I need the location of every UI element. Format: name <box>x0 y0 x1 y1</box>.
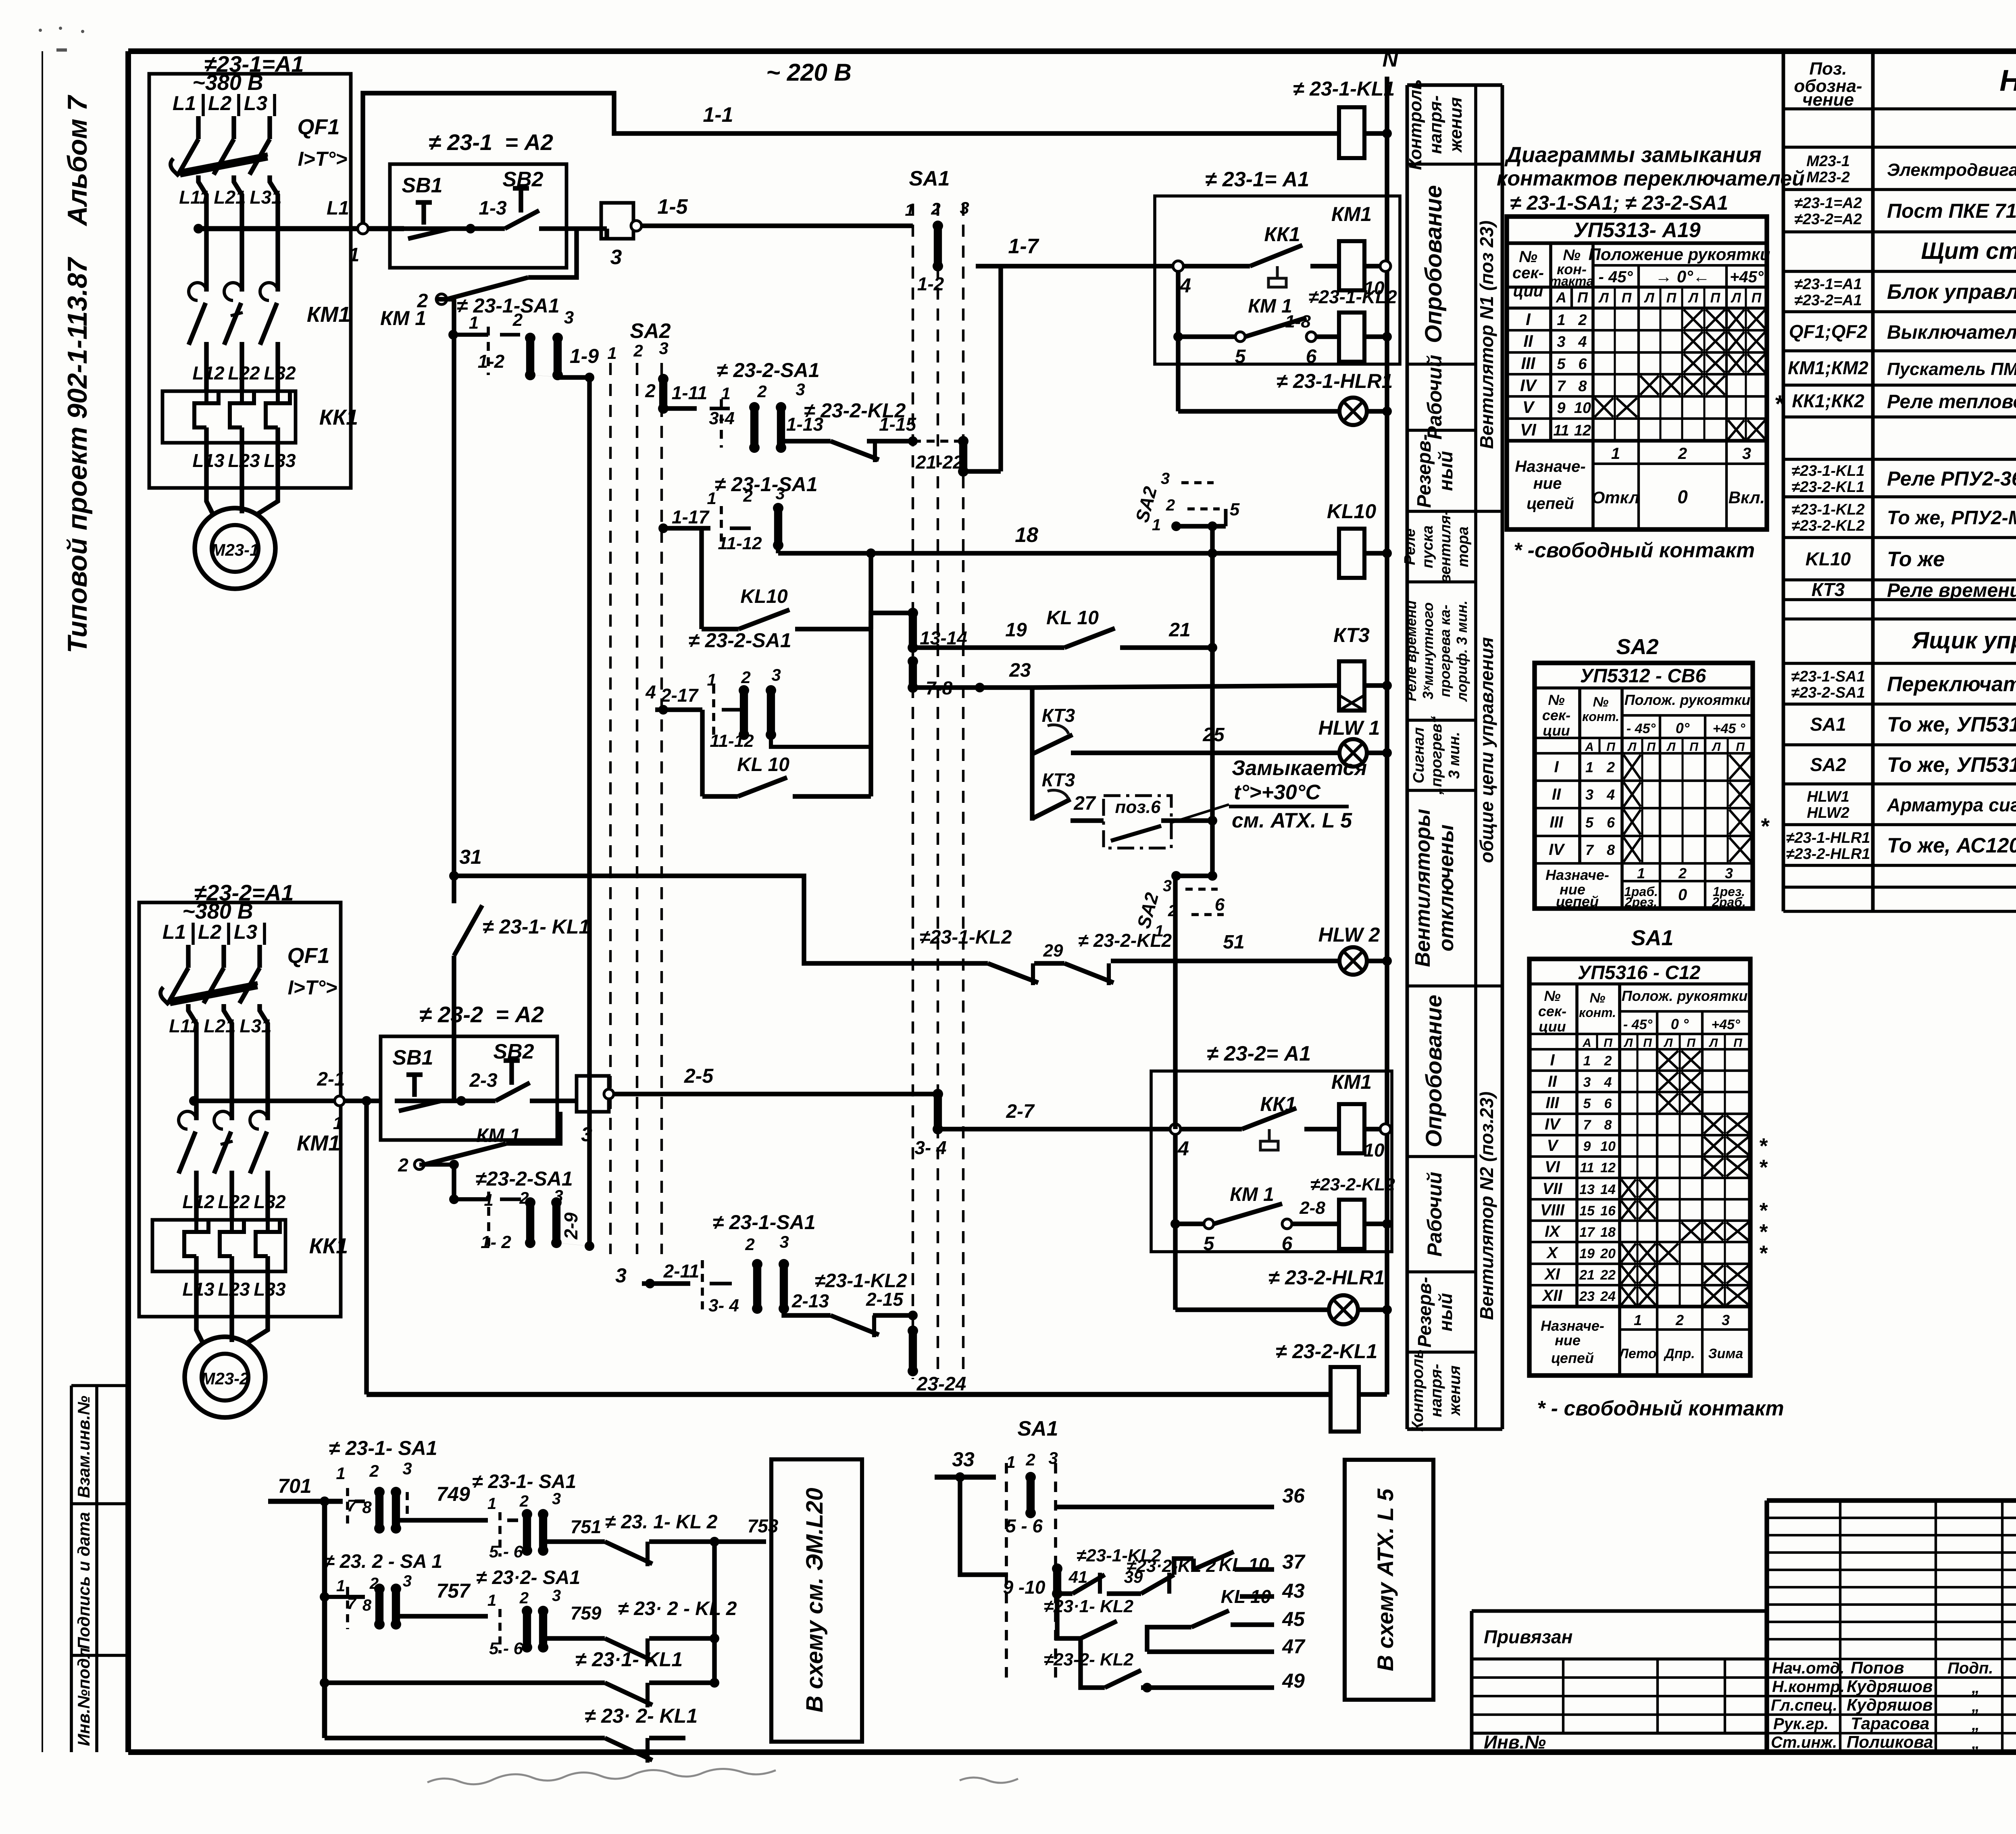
strip cell Контроль <box>1407 1349 1476 1432</box>
svg-text:Л: Л <box>1624 1036 1633 1050</box>
wire 18 <box>778 523 1339 558</box>
svg-text:21: 21 <box>1168 619 1190 641</box>
svg-text:→ 0°←: → 0°← <box>1655 267 1710 286</box>
svg-text:L2: L2 <box>208 92 232 115</box>
svg-text:Наименование: Наименование <box>1999 64 2016 97</box>
svg-text:2рез.: 2рез. <box>1624 895 1657 909</box>
svg-text:23: 23 <box>1579 1289 1595 1304</box>
svg-text:Опробование: Опробование <box>1421 995 1446 1147</box>
svg-text:2-11: 2-11 <box>663 1261 700 1282</box>
svg-text:В схему см. ЭМ.L20: В схему см. ЭМ.L20 <box>802 1488 828 1712</box>
svg-text:≠ 23. 2 - SA 1: ≠ 23. 2 - SA 1 <box>324 1551 442 1572</box>
contact 23-1-KL2 NC (29) <box>919 927 1064 985</box>
svg-text:Арматура сигнальная АС1201БУ2: Арматура сигнальная АС1201БУ2, ~220В <box>1887 794 2016 815</box>
svg-text:1: 1 <box>1634 1312 1642 1328</box>
svg-text:Полшкова: Полшкова <box>1847 1732 1933 1751</box>
contact KK1 NC block1 <box>1173 223 1339 297</box>
time relay coil KT3 <box>1333 624 1392 711</box>
svg-text:= А2: = А2 <box>505 129 553 155</box>
parts row: ЯУП <box>1911 627 2016 654</box>
wire vertical 21-27 junction <box>1210 526 1214 876</box>
svg-text:„: „ <box>1971 1679 1980 1696</box>
svg-text:3: 3 <box>402 1459 412 1478</box>
sidebar project title <box>62 94 93 653</box>
switch section 23-1-SA1 (3-4) lower <box>642 1211 816 1315</box>
svg-text:L3: L3 <box>244 92 268 115</box>
svg-text:2-7: 2-7 <box>1006 1101 1035 1122</box>
svg-text:1-13: 1-13 <box>786 414 823 435</box>
switch section 23-2-SA1 (1-2) <box>449 1165 573 1252</box>
svg-text:ции: ции <box>1539 1018 1566 1035</box>
svg-text:Замыкается: Замыкается <box>1232 757 1367 780</box>
switch section 23-1-SA1 (1-2) <box>448 294 574 380</box>
svg-text:Полож. рукоятки: Полож. рукоятки <box>1624 692 1751 708</box>
svg-text:3: 3 <box>1585 786 1593 803</box>
svg-text:П: П <box>1622 290 1632 306</box>
svg-text:7: 7 <box>1583 1117 1592 1133</box>
svg-text:М23-1: М23-1 <box>211 540 259 559</box>
labels L11 L21 L31 23-2 <box>169 1015 272 1036</box>
strip cell Рабочий <box>1407 1157 1476 1257</box>
switch section 23-1-SA1 (5-6) aux <box>472 1471 576 1561</box>
strip cell Сигнал <box>1407 716 1476 795</box>
svg-text:1-2: 1-2 <box>478 351 505 372</box>
wire 51 and lamp HLW2 <box>1137 923 1392 975</box>
svg-text:+45°: +45° <box>1711 1017 1740 1032</box>
svg-text:9: 9 <box>1583 1139 1591 1154</box>
wire 2-1 <box>189 1069 381 1133</box>
svg-text:ІІ: ІІ <box>1552 786 1561 803</box>
labels L13 L23 L33 23-2 <box>182 1279 286 1300</box>
svg-text:≠ 23· 2 - KL 2: ≠ 23· 2 - KL 2 <box>618 1598 737 1619</box>
svg-text:*: * <box>1758 1155 1768 1180</box>
svg-text:цепей: цепей <box>1527 495 1574 513</box>
svg-text:L23: L23 <box>228 450 260 471</box>
svg-text:≠23-1-KL1: ≠23-1-KL1 <box>1791 463 1864 479</box>
svg-text:0 °: 0 ° <box>1671 1016 1689 1032</box>
svg-text:6: 6 <box>1282 1233 1293 1255</box>
corner marks <box>39 27 84 52</box>
svg-text:6: 6 <box>1604 1096 1612 1111</box>
svg-text:П: П <box>1604 1036 1613 1050</box>
svg-text:ный: ный <box>1435 451 1457 491</box>
svg-text:П: П <box>1710 290 1721 306</box>
svg-text:4: 4 <box>1179 274 1191 297</box>
labels L12 L22 L32 23-1 <box>192 363 296 383</box>
svg-text:3- 4: 3- 4 <box>708 1296 739 1315</box>
svg-text:≠23-1-KL2: ≠23-1-KL2 <box>1791 501 1864 518</box>
svg-text:2: 2 <box>1606 759 1615 775</box>
svg-text:2-13: 2-13 <box>791 1290 829 1311</box>
svg-text:* -свободный контакт: * -свободный контакт <box>1514 539 1755 562</box>
svg-text:3: 3 <box>659 339 668 358</box>
svg-text:1: 1 <box>607 344 616 363</box>
svg-text:≠ 23-1-SA1: ≠ 23-1-SA1 <box>712 1211 815 1234</box>
switch SA1 aux (5-6) <box>1006 1417 1058 1686</box>
relay coil KL10 <box>1327 500 1392 578</box>
start button SB2 23-2 <box>461 1040 557 1101</box>
svg-text:1: 1 <box>484 1190 493 1209</box>
contact KM1 aux 1-8 <box>1178 271 1339 367</box>
svg-text:конт.: конт. <box>1582 709 1619 724</box>
svg-text:Попов: Попов <box>1851 1658 1904 1677</box>
pushbutton box 23-2=A2 <box>381 1002 557 1140</box>
svg-text:0: 0 <box>1678 886 1687 904</box>
svg-text:33: 33 <box>952 1448 975 1471</box>
switch section 23-1-SA1 (11-12) <box>658 473 818 553</box>
svg-text:1: 1 <box>707 489 716 508</box>
svg-text:3: 3 <box>1742 445 1751 463</box>
svg-text:~380 В: ~380 В <box>192 71 263 95</box>
switch SA2 stub (6) <box>1133 871 1225 940</box>
svg-text:Гл.спец.: Гл.спец. <box>1771 1696 1837 1714</box>
svg-text:Полож. рукоятки: Полож. рукоятки <box>1622 988 1748 1004</box>
relay coil 23-1-KL2 <box>1308 286 1397 362</box>
svg-text:4: 4 <box>1578 333 1587 350</box>
svg-text:„: „ <box>1971 1697 1980 1715</box>
svg-text:лориф. 3 мин.: лориф. 3 мин. <box>1454 600 1470 702</box>
svg-text:16: 16 <box>1600 1203 1616 1219</box>
svg-text:5: 5 <box>1230 500 1240 519</box>
svg-text:1-8: 1-8 <box>1285 312 1311 331</box>
svg-text:То же, РПУ2-М3Б440 У3Б, 4з+4р.: То же, РПУ2-М3Б440 У3Б, 4з+4р. конт. <box>1887 507 2016 529</box>
svg-text:Л: Л <box>1643 290 1654 306</box>
svg-text:29: 29 <box>1043 941 1063 961</box>
svg-text:1-2: 1-2 <box>917 273 944 294</box>
svg-text:≠ 23-1-SA1; ≠ 23-2-SA1: ≠ 23-1-SA1; ≠ 23-2-SA1 <box>1510 192 1728 214</box>
svg-text:ние: ние <box>1555 1332 1581 1348</box>
svg-text:Пост ПКЕ 712-2У3 „ пуск“-„с: Пост ПКЕ 712-2У3 „ пуск“-„стоп“ <box>1887 200 2016 222</box>
svg-text:L1: L1 <box>162 921 186 943</box>
svg-text:701: 701 <box>278 1475 311 1497</box>
svg-text:≠ 23-2-SA1: ≠ 23-2-SA1 <box>716 359 819 381</box>
svg-text:„прогрев“: „прогрев“ <box>1428 716 1445 795</box>
svg-text:Инв.№подл: Инв.№подл <box>74 1648 93 1746</box>
svg-text:П: П <box>1733 1036 1743 1050</box>
svg-text:КТ3: КТ3 <box>1333 624 1370 646</box>
svg-text:3: 3 <box>1557 333 1565 350</box>
svg-text:А: А <box>1556 289 1566 306</box>
svg-text:KL10: KL10 <box>1806 548 1851 569</box>
table UP5313-A19 <box>1507 217 1785 529</box>
svg-text:51: 51 <box>1223 932 1244 953</box>
svg-text:То же, УП5312-СВ6: То же, УП5312-СВ6 <box>1887 753 2016 777</box>
svg-text:1: 1 <box>336 1577 345 1595</box>
svg-text:ІІІ: ІІІ <box>1549 813 1563 831</box>
svg-text:27: 27 <box>1073 793 1096 814</box>
callout to ATX.L5 <box>1345 1460 1433 1700</box>
svg-text:П: П <box>1606 740 1616 754</box>
svg-text:ІV: ІV <box>1545 1115 1561 1133</box>
wire 757 <box>396 1580 488 1624</box>
svg-text:ІІІ: ІІІ <box>1521 354 1535 373</box>
svg-text:см. АТХ. L 5: см. АТХ. L 5 <box>1232 809 1352 832</box>
svg-text:Подп.: Подп. <box>1947 1659 1993 1677</box>
free contact note 2 <box>1537 1397 1784 1420</box>
switch section 23-2-SA1 (7-8) aux <box>320 1551 442 1630</box>
svg-text:- 45°: - 45° <box>1599 268 1633 286</box>
strip cell Опробование <box>1407 986 1476 1147</box>
svg-text:≠ 23-2: ≠ 23-2 <box>419 1002 483 1027</box>
svg-text:5: 5 <box>1583 1096 1591 1111</box>
svg-text:+45°: +45° <box>1730 268 1764 286</box>
svg-text:2: 2 <box>757 382 766 401</box>
svg-text:УП5313- А19: УП5313- А19 <box>1573 219 1701 242</box>
svg-text:4: 4 <box>1177 1137 1189 1160</box>
svg-text:Л: Л <box>1598 290 1609 306</box>
labels L11 L21 L31 23-1 <box>179 187 282 208</box>
svg-text:+45 °: +45 ° <box>1713 721 1745 736</box>
svg-text:21: 21 <box>1579 1267 1595 1283</box>
phase labels L1 L2 L3 23-1 <box>173 92 275 116</box>
svg-text:≠23-1=А1: ≠23-1=А1 <box>1794 276 1862 293</box>
svg-text:ІV: ІV <box>1549 841 1565 859</box>
strip cell Реле <box>1402 510 1476 584</box>
svg-text:6: 6 <box>1578 356 1587 373</box>
contactor coil KM1 block1 <box>1331 203 1391 298</box>
svg-text:8: 8 <box>362 1498 372 1517</box>
svg-text:№: № <box>1590 990 1606 1006</box>
circuit breaker QF1 23-1 <box>171 115 347 176</box>
svg-text:Ст.инж.: Ст.инж. <box>1771 1734 1837 1751</box>
note zamykaetsya <box>1171 757 1367 832</box>
svg-text:L33: L33 <box>254 1279 286 1300</box>
svg-text:1: 1 <box>469 313 479 333</box>
svg-text:жения: жения <box>1446 97 1466 153</box>
svg-text:То же, АС1201IУ2, ~220В: То же, АС1201IУ2, ~220В <box>1887 834 2016 857</box>
svg-text:2: 2 <box>1166 496 1175 514</box>
svg-text:Положение рукоятки: Положение рукоятки <box>1589 245 1770 264</box>
strip cell Реле времени <box>1403 582 1476 702</box>
svg-text:КК1;КК2: КК1;КК2 <box>1792 390 1864 411</box>
svg-text:2: 2 <box>1678 445 1687 463</box>
svg-text:Н.контр.: Н.контр. <box>1772 1678 1845 1696</box>
svg-text:Контроль: Контроль <box>1406 79 1425 170</box>
svg-text:2-9: 2-9 <box>560 1212 581 1240</box>
svg-text:КТ3: КТ3 <box>1042 769 1075 790</box>
svg-text:8: 8 <box>362 1596 372 1614</box>
contact 23-1-KL1 on vertical <box>454 299 590 1101</box>
svg-text:1-7: 1-7 <box>1008 235 1039 258</box>
svg-text:L33: L33 <box>264 450 296 471</box>
svg-text:21-22: 21-22 <box>915 452 963 473</box>
svg-text:L13: L13 <box>182 1279 215 1300</box>
svg-text:То же: То же <box>1887 548 1945 571</box>
svg-text:№: № <box>1519 248 1537 266</box>
svg-text:* - свободный контакт: * - свободный контакт <box>1537 1397 1784 1420</box>
svg-text:≠ 23-1- SA1: ≠ 23-1- SA1 <box>329 1437 437 1459</box>
svg-text:18: 18 <box>1600 1225 1616 1240</box>
svg-text:Типовой проект 902-1-113.87: Типовой проект 902-1-113.87 <box>62 256 93 653</box>
svg-text:V: V <box>1522 398 1535 417</box>
switch SA2 dashed columns <box>607 319 671 1254</box>
svg-text:А: А <box>1585 740 1594 754</box>
svg-text:3: 3 <box>581 1123 592 1146</box>
svg-text:5: 5 <box>1204 1233 1215 1255</box>
svg-text:вентиля-: вентиля- <box>1437 510 1454 584</box>
svg-text:45: 45 <box>1282 1608 1305 1630</box>
strip right col common circuits <box>1476 637 1502 986</box>
svg-text:1-9: 1-9 <box>570 345 599 367</box>
svg-text:≠ 23-1= А1: ≠ 23-1= А1 <box>1205 168 1309 191</box>
svg-text:≠ 23-1-KL1: ≠ 23-1-KL1 <box>1293 77 1395 100</box>
svg-text:2-8: 2-8 <box>1299 1198 1325 1218</box>
parts row: SA1 switches <box>1791 668 2016 701</box>
svg-text:П: П <box>1666 290 1677 306</box>
svg-text:9 -10: 9 -10 <box>1003 1577 1045 1598</box>
svg-text:ІV: ІV <box>1520 376 1537 395</box>
strip cell Вентиляторы <box>1407 790 1476 967</box>
contact KT3 delayed 1 <box>1032 688 1075 821</box>
parts row: ЩСУ <box>1921 238 2016 264</box>
switch section SA1 (23-24) <box>908 1325 966 1395</box>
svg-text:I>T°>: I>T°> <box>288 976 337 999</box>
table SA2 UP5312-SV6 <box>1535 635 1770 910</box>
parts row: KT3 time relay <box>1812 579 2016 601</box>
svg-text:3: 3 <box>779 1232 789 1251</box>
parts row: HLW lamps <box>1807 788 2016 821</box>
svg-text:ции: ции <box>1543 722 1570 739</box>
strip cell Опробование <box>1407 164 1476 343</box>
svg-text:2раб.: 2раб. <box>1712 895 1746 909</box>
svg-text:Привязан: Привязан <box>1484 1626 1572 1647</box>
svg-text:КМ1: КМ1 <box>297 1131 340 1155</box>
svg-text:КМ1: КМ1 <box>307 302 350 327</box>
svg-text:КК1: КК1 <box>1264 223 1300 246</box>
wire bottom rail <box>367 1392 1331 1397</box>
svg-text:~380 В: ~380 В <box>182 899 253 923</box>
svg-text:цепей: цепей <box>1556 893 1599 910</box>
svg-text:1: 1 <box>487 1495 496 1513</box>
svg-text:2-3: 2-3 <box>469 1070 498 1091</box>
svg-text:Назначе-: Назначе- <box>1545 867 1609 883</box>
wire vertical to lower SA groups <box>585 377 627 1287</box>
svg-text:І: І <box>1550 1051 1555 1069</box>
wire 19 contact KL10 wire 21 <box>913 607 1217 652</box>
svg-text:HLW 2: HLW 2 <box>1318 923 1380 946</box>
wire 1-7 <box>976 235 1173 471</box>
svg-text:QF1: QF1 <box>287 944 329 968</box>
svg-text:≠ 23-1-HLR1: ≠ 23-1-HLR1 <box>1277 370 1393 392</box>
svg-text:12: 12 <box>1600 1160 1616 1175</box>
svg-text:Выключатель АЕ2026-10НУ3-Б, I: Выключатель АЕ2026-10НУ3-Б, Iр=5А <box>1887 322 2016 343</box>
svg-text:11-12: 11-12 <box>718 534 762 553</box>
motor М23-1 <box>195 471 278 589</box>
contact 23-2-KL2 wire 1-13 1-15 <box>781 399 918 462</box>
contact KM1 self-hold <box>380 229 577 329</box>
contactor KM1 main contacts 23-1 <box>189 283 350 372</box>
svg-text:В схему АТХ. L 5: В схему АТХ. L 5 <box>1372 1488 1398 1671</box>
svg-text:1: 1 <box>1557 312 1565 329</box>
svg-text:I>T°>: I>T°> <box>298 148 348 170</box>
svg-text:3: 3 <box>564 308 574 327</box>
svg-text:9: 9 <box>1557 400 1565 417</box>
svg-text:3: 3 <box>1725 865 1733 882</box>
strip cell Контроль <box>1406 79 1466 170</box>
svg-text:L3: L3 <box>234 921 258 943</box>
svg-text:ный: ный <box>1435 1293 1456 1331</box>
svg-text:2: 2 <box>741 668 750 687</box>
svg-text:1-3: 1-3 <box>479 198 507 219</box>
node N label <box>1383 47 1399 71</box>
svg-text:4: 4 <box>1604 1075 1612 1090</box>
svg-text:*: * <box>1758 1220 1768 1244</box>
contact 23-2-KL2 NC <box>1064 930 1172 985</box>
svg-text:8: 8 <box>1607 842 1615 858</box>
svg-text:прогрева ка-: прогрева ка- <box>1437 604 1453 697</box>
svg-text:3: 3 <box>403 1572 412 1590</box>
svg-text:Л: Л <box>1712 740 1721 754</box>
svg-text:Вентилятор N2 (поз.23): Вентилятор N2 (поз.23) <box>1476 1092 1497 1320</box>
svg-text:Лето: Лето <box>1618 1346 1657 1361</box>
svg-text:*: * <box>1758 1241 1768 1265</box>
svg-text:KL 10: KL 10 <box>1221 1586 1271 1607</box>
svg-text:VІІІ: VІІІ <box>1540 1201 1565 1219</box>
function strip frame <box>1407 85 1502 1429</box>
parts table header <box>1794 59 2016 110</box>
svg-text:КМ1: КМ1 <box>1331 1071 1372 1093</box>
svg-text:Резерв-: Резерв- <box>1414 434 1435 508</box>
free contact note 1 <box>1514 539 1755 562</box>
svg-text:Нач.отд.: Нач.отд. <box>1772 1659 1844 1677</box>
svg-text:6: 6 <box>1607 814 1615 831</box>
svg-text:SA1: SA1 <box>909 167 950 190</box>
wire 27 and poz6 thermostat <box>1070 793 1217 848</box>
svg-text:10: 10 <box>1574 400 1591 417</box>
svg-text:Рабочий: Рабочий <box>1423 355 1446 440</box>
svg-text:≠ 23-2-KL2: ≠ 23-2-KL2 <box>1078 930 1172 951</box>
svg-text:≠ 23-1-SA1: ≠ 23-1-SA1 <box>714 473 817 496</box>
svg-text:5: 5 <box>1235 346 1246 367</box>
svg-text:SB1: SB1 <box>402 174 442 197</box>
svg-text:5: 5 <box>1557 356 1566 373</box>
relay coil 23-1-KL1 <box>1293 77 1395 158</box>
svg-text:≠ 23. 1- KL 2: ≠ 23. 1- KL 2 <box>605 1511 718 1533</box>
wire 33 <box>935 1448 1008 1575</box>
svg-text:отключены: отключены <box>1435 825 1458 952</box>
svg-text:Дпр.: Дпр. <box>1663 1346 1695 1361</box>
svg-text:сек-: сек- <box>1538 1003 1566 1019</box>
svg-text:Л: Л <box>1709 1036 1718 1050</box>
svg-text:Тарасова: Тарасова <box>1851 1714 1929 1733</box>
svg-text:2: 2 <box>519 1492 529 1510</box>
svg-text:QF1;QF2: QF1;QF2 <box>1789 321 1868 342</box>
svg-text:1: 1 <box>349 244 360 266</box>
svg-text:М23-2: М23-2 <box>201 1369 249 1388</box>
svg-text:напря-: напря- <box>1427 1364 1445 1417</box>
motor М23-2 <box>185 1300 268 1417</box>
parts row: SA1 <box>1810 713 2016 736</box>
svg-text:KL 10: KL 10 <box>1046 607 1099 629</box>
relay coil 23-2-KL2 <box>1310 1175 1395 1249</box>
svg-text:Л: Л <box>1687 290 1698 306</box>
power box 23-2=A1 <box>139 880 341 1317</box>
svg-text:ІХ: ІХ <box>1545 1223 1561 1240</box>
svg-text:Поз.: Поз. <box>1809 59 1847 79</box>
svg-text:L2: L2 <box>198 921 222 943</box>
svg-text:П: П <box>1689 740 1699 754</box>
labels L12 L22 L32 23-2 <box>182 1191 286 1212</box>
switch section SA1 (1-2) <box>917 221 944 294</box>
svg-text:≠23-1-KL2: ≠23-1-KL2 <box>919 927 1012 948</box>
relay coil 23-2-KL1 <box>1276 1340 1387 1432</box>
svg-text:1: 1 <box>1152 516 1161 534</box>
stop button SB1 23-1 <box>402 174 475 239</box>
svg-text:Рабочий: Рабочий <box>1423 1172 1446 1257</box>
sidebar stamp cells <box>71 1386 128 1752</box>
svg-text:≠ 23·2- SA1: ≠ 23·2- SA1 <box>476 1567 580 1588</box>
svg-text:SA1: SA1 <box>1017 1417 1058 1440</box>
